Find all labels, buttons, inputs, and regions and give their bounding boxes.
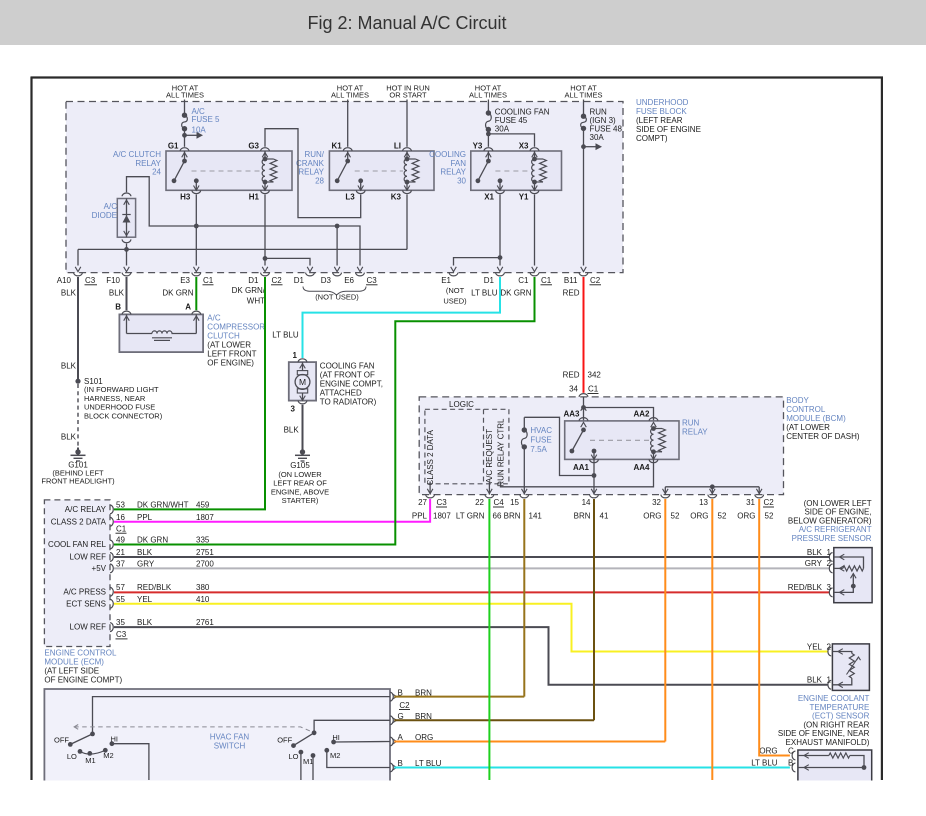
svg-text:OR START: OR START [389,91,427,100]
wire: D3 drop [336,226,338,266]
svg-text:(IN FORWARD LIGHT: (IN FORWARD LIGHT [84,385,159,394]
underhood fuse block (dashed box) [66,102,623,273]
wire: GRY 2700 +5V to pressure sensor 2 [114,567,830,569]
wire: ORG 52 row to fan switch A [394,741,665,743]
switch section 2 feed wire [314,720,390,733]
svg-text:410: 410 [196,595,210,604]
svg-text:(ON LOWER LEFT: (ON LOWER LEFT [804,499,872,508]
svg-text:COOLING FAN: COOLING FAN [320,362,375,371]
fuse RUN (IGN 3) FUSE 48 30A [581,114,586,119]
svg-text:E3: E3 [180,276,190,285]
svg-text:A/C: A/C [104,202,118,211]
svg-text:ENGINE, ABOVE: ENGINE, ABOVE [271,487,329,496]
svg-text:BLK: BLK [61,288,77,297]
wire: AA2 feed [584,408,654,421]
svg-text:C3: C3 [437,498,448,507]
svg-text:H3: H3 [180,193,191,202]
svg-text:7.5A: 7.5A [530,445,547,454]
svg-text:PPL: PPL [137,513,153,522]
ECM pin 16 PPL 1807 (CLASS 2 DATA) [110,517,113,526]
wire: X1 branch to E1 [454,258,501,266]
svg-text:LEFT FRONT: LEFT FRONT [207,350,256,359]
svg-text:16: 16 [116,513,125,522]
svg-text:BLK: BLK [61,432,77,441]
svg-text:GRY: GRY [137,559,155,568]
svg-text:RUN/: RUN/ [304,150,324,159]
svg-text:C3: C3 [85,276,96,285]
svg-text:32: 32 [652,498,661,507]
svg-text:35: 35 [116,618,125,627]
wire: X1 down to D1 (LT BLU) [499,195,501,266]
wire: ORG 52 pin 32 down [664,499,666,742]
svg-text:X3: X3 [519,142,529,151]
engine control module (ECM) dashed box [44,500,110,647]
svg-text:FAN: FAN [450,159,466,168]
svg-text:15: 15 [510,498,519,507]
svg-text:COMPRESSOR: COMPRESSOR [207,322,265,331]
svg-text:30: 30 [457,176,466,185]
svg-text:COOLING: COOLING [429,150,466,159]
hvac fan switch box [44,689,390,781]
svg-text:LOW REF: LOW REF [70,623,107,632]
svg-text:UNDERHOOD: UNDERHOOD [636,98,689,107]
wire: ORG output header [665,486,759,488]
svg-text:LT BLU: LT BLU [471,288,498,297]
svg-text:B11: B11 [564,276,578,285]
svg-text:SIDE OF ENGINE,: SIDE OF ENGINE, [804,508,871,517]
svg-text:PPL: PPL [412,511,428,520]
svg-text:B: B [115,303,121,312]
wire: diode top link to H3/D3/E6 [127,177,361,266]
svg-text:FRONT HEADLIGHT): FRONT HEADLIGHT) [41,476,115,485]
wire: ground bus A10 to K3 [78,248,407,250]
svg-text:31: 31 [746,498,755,507]
svg-text:ORG: ORG [759,746,777,755]
svg-text:OFF: OFF [54,736,69,745]
svg-text:STARTER): STARTER) [282,496,319,505]
relay: RUN/CRANK RELAY 28 [329,151,434,190]
svg-text:DK GRN: DK GRN [162,288,193,297]
wire: BRN 141 row to fan switch B [394,696,524,698]
switch 2 wiper [294,733,315,746]
svg-text:CLASS 2 DATA: CLASS 2 DATA [426,429,435,485]
cooling fan motor [289,362,316,401]
svg-text:PRESSURE SENSOR: PRESSURE SENSOR [792,534,872,543]
svg-text:37: 37 [116,559,125,568]
switch 2 LO wire down [300,752,302,780]
svg-text:FUSE BLOCK: FUSE BLOCK [636,107,687,116]
svg-text:LT BLU: LT BLU [751,758,778,767]
svg-text:BRN: BRN [504,511,521,520]
relay: RUN RELAY (in BCM) [565,421,679,460]
svg-text:DK GRN/WHT: DK GRN/WHT [137,500,189,509]
switch 1 contacts [78,749,83,754]
svg-text:K1: K1 [331,142,342,151]
wire: AA1 to pin 14 [593,459,595,494]
svg-text:BLK: BLK [284,425,300,434]
svg-text:BODY: BODY [786,396,809,405]
svg-text:57: 57 [116,583,125,592]
BCM: logic box [425,409,509,484]
relay: COOLING FAN RELAY 30 [471,151,562,190]
svg-text:30A: 30A [495,125,510,134]
svg-text:RED/BLK: RED/BLK [137,583,172,592]
svg-text:OFF: OFF [277,736,292,745]
svg-text:A/C CLUTCH: A/C CLUTCH [113,150,161,159]
svg-text:MODULE (BCM): MODULE (BCM) [786,414,846,423]
svg-text:BRN: BRN [574,511,591,520]
svg-text:SWITCH: SWITCH [214,741,246,750]
svg-text:G1: G1 [168,142,179,151]
svg-text:AA3: AA3 [563,410,580,419]
svg-text:1: 1 [827,548,832,557]
svg-text:G3: G3 [248,142,259,151]
wire: BLK 2761 low ref to ECT sensor 1 [114,627,828,685]
svg-text:BLK: BLK [109,288,125,297]
svg-text:Y3: Y3 [473,142,483,151]
svg-text:A: A [185,303,191,312]
svg-text:L3: L3 [345,193,355,202]
svg-text:459: 459 [196,500,210,509]
svg-text:USED): USED) [443,296,467,305]
svg-text:B: B [398,688,403,697]
svg-text:CENTER OF DASH): CENTER OF DASH) [786,432,860,441]
switch 2 contacts [299,750,304,755]
svg-text:A/C RELAY: A/C RELAY [65,505,107,514]
a/c refrigerant pressure sensor [834,548,872,603]
wire: D1/C2 DK GRN/WHT to ECM 53 [114,277,265,509]
svg-text:(AT LEFT SIDE: (AT LEFT SIDE [44,667,99,676]
svg-text:M2: M2 [330,751,340,760]
svg-text:AA1: AA1 [573,463,590,472]
svg-text:342: 342 [588,370,602,379]
svg-text:3: 3 [827,583,832,592]
svg-text:ALL TIMES: ALL TIMES [166,91,204,100]
svg-text:A/C REFRIGERANT: A/C REFRIGERANT [799,525,872,534]
svg-text:55: 55 [116,595,125,604]
svg-text:B: B [788,758,793,767]
svg-text:TEMPERATURE: TEMPERATURE [810,703,870,712]
svg-text:LT GRN: LT GRN [456,511,485,520]
svg-text:BLK: BLK [807,676,823,685]
svg-text:27: 27 [418,498,427,507]
svg-text:(AT FRONT OF: (AT FRONT OF [320,371,375,380]
wire: YEL 410 to ECT sensor 2 [114,604,828,652]
svg-text:DIODE: DIODE [92,211,117,220]
svg-text:1: 1 [827,676,832,685]
svg-text:C3: C3 [116,630,127,639]
svg-text:BELOW GENERATOR): BELOW GENERATOR) [788,516,872,525]
svg-text:D1: D1 [484,276,495,285]
switch 2 HI wire to pin A [334,741,390,744]
svg-text:ORG: ORG [415,733,433,742]
svg-text:F10: F10 [106,276,120,285]
switch 2 M2 wire to pin B [327,750,390,767]
svg-text:D3: D3 [321,276,332,285]
engine coolant temperature (ECT) sensor [832,644,869,691]
wire: LT BLU fan switch B to blower resistor B [394,767,790,769]
switch 1 wiper [70,734,92,745]
svg-text:CLASS 2 DATA: CLASS 2 DATA [51,517,107,526]
wire: H1 down to D1/C2 [264,195,266,266]
svg-text:C4: C4 [494,498,505,507]
svg-text:380: 380 [196,583,210,592]
brace: not used pins [303,287,366,296]
svg-text:ORG: ORG [690,511,708,520]
wire: feed to K1 [347,100,349,147]
svg-text:FUSE: FUSE [530,436,551,445]
switch section 1 feed wire [93,697,391,734]
svg-text:Fig 2: Manual A/C Circuit: Fig 2: Manual A/C Circuit [307,13,506,33]
svg-text:E6: E6 [344,276,354,285]
svg-text:1807: 1807 [433,511,451,520]
svg-text:Y1: Y1 [519,193,529,202]
wire: ORG 52 pin 13 down [711,499,713,780]
svg-text:C2: C2 [590,276,601,285]
svg-text:LO: LO [288,752,298,761]
wire: feed to LI [406,100,408,147]
svg-text:BRN: BRN [415,688,432,697]
svg-text:C1: C1 [518,276,529,285]
svg-text:G105: G105 [290,461,310,470]
svg-text:BLK: BLK [807,548,823,557]
svg-text:2700: 2700 [196,559,214,568]
svg-text:(ECT) SENSOR: (ECT) SENSOR [812,712,870,721]
wire: feed to cooling fan fuse 45 [487,100,489,114]
svg-text:(LEFT REAR: (LEFT REAR [636,116,683,125]
svg-text:ENGINE COOLANT: ENGINE COOLANT [798,694,870,703]
svg-text:UNDERHOOD FUSE: UNDERHOOD FUSE [84,403,155,412]
ECM pin 55 YEL 410 (ECT SENS) [110,599,113,608]
wire: diode bottom to F10 / ground bus [126,244,128,266]
svg-text:A: A [398,733,404,742]
wire: motor pin 3 BLK to G105 [302,405,304,450]
svg-text:2751: 2751 [196,548,214,557]
ECM pin 35 BLK 2761 (LOW REF) [110,623,113,632]
svg-text:EXHAUST MANIFOLD): EXHAUST MANIFOLD) [786,738,870,747]
wire: BLK 2751 low ref to pressure sensor 1 [114,556,830,558]
wire: BRN 41 row to fan switch G [394,719,594,721]
connector row: fuse block bottom [75,267,81,272]
svg-text:C2: C2 [764,498,775,507]
ground G101 [75,449,80,454]
svg-text:LEFT REAR OF: LEFT REAR OF [273,479,327,488]
svg-text:M1: M1 [303,757,313,766]
svg-text:C2: C2 [272,276,283,285]
svg-text:A10: A10 [57,276,72,285]
fan switch pins B,G,A,B [390,692,393,701]
svg-text:LI: LI [394,142,401,151]
svg-text:MODULE (ECM): MODULE (ECM) [44,658,104,667]
ECM pin 57 RED/BLK 380 (A/C PRESS) [110,587,113,596]
splice S101 [75,379,80,384]
wire: ORG 52 pin 31 to blower resistor C [759,499,790,756]
svg-text:2761: 2761 [196,618,214,627]
svg-text:FUSE 5: FUSE 5 [192,115,221,124]
svg-text:ENGINE COMPT,: ENGINE COMPT, [320,380,383,389]
svg-text:B: B [398,759,403,768]
wire: C1 DK GRN to ECM 49 [114,277,535,545]
wire: A10 BLK to S101 [77,277,79,380]
svg-text:X1: X1 [484,193,494,202]
svg-text:TO RADIATOR): TO RADIATOR) [320,398,377,407]
body control module (BCM) dashed box [419,397,783,495]
svg-text:CLUTCH: CLUTCH [207,332,240,341]
wire: Y1 down to C1 [534,195,536,266]
wire: feed to A/C fuse 5 [184,100,186,116]
svg-text:M1: M1 [85,756,95,765]
svg-text:2: 2 [827,559,832,568]
svg-text:A/C REQUEST: A/C REQUEST [485,429,494,483]
wire: B11 RED 342 to BCM 34 [583,277,585,393]
wire: S101 to G101 (dashed in harness) [77,384,79,448]
svg-text:141: 141 [529,511,543,520]
svg-text:WHT: WHT [247,296,265,305]
svg-text:C1: C1 [588,385,599,394]
svg-text:66: 66 [493,511,502,520]
svg-text:ORG: ORG [737,511,755,520]
switch 1 HI wire down [112,744,149,780]
wire: F10 BLK to clutch pin B [126,277,128,310]
svg-text:BRN: BRN [415,712,432,721]
wire: RUN RELAY CTRL to AA4 [501,459,654,486]
fuse COOLING FAN FUSE 45 30A [486,110,491,115]
svg-text:CONTROL: CONTROL [786,405,826,414]
blower motor resistor [798,750,872,781]
wire: class 2 data to pin 27 [429,482,431,495]
svg-text:RUN RELAY CTRL: RUN RELAY CTRL [496,418,505,487]
ground G105 [300,449,305,454]
svg-text:C1: C1 [541,276,552,285]
title bar [0,0,926,45]
svg-text:BLK: BLK [137,548,153,557]
wire: RED/BLK 380 to pressure sensor 3 [114,591,830,593]
svg-text:335: 335 [196,536,210,545]
svg-text:(NOT USED): (NOT USED) [315,293,359,302]
relay: A/C CLUTCH RELAY 24 [166,151,292,190]
svg-text:53: 53 [116,500,125,509]
svg-text:14: 14 [582,498,591,507]
wire: K3 drop [406,195,408,250]
svg-text:G: G [398,712,404,721]
svg-text:3: 3 [291,405,296,414]
svg-text:RED/BLK: RED/BLK [788,583,823,592]
svg-text:(AT LOWER: (AT LOWER [786,423,830,432]
ECM pin 49 DK GRN 335 (COOL FAN REL) [110,540,113,549]
svg-text:52: 52 [718,511,727,520]
fuse HVAC FUSE 7.5A [524,417,594,475]
svg-text:YEL: YEL [807,642,823,651]
svg-text:DK GRN: DK GRN [500,288,531,297]
svg-text:ORG: ORG [643,511,661,520]
svg-text:OF ENGINE): OF ENGINE) [207,359,254,368]
svg-text:13: 13 [699,498,708,507]
wire: RED into BCM to AA3/AA2 [579,394,588,397]
wire: BRN 41 pin 14 down [593,499,595,720]
svg-text:+5V: +5V [92,564,107,573]
svg-text:28: 28 [315,176,324,185]
svg-text:BLOCK CONNECTOR): BLOCK CONNECTOR) [84,412,163,421]
svg-text:24: 24 [152,168,161,177]
wire: H3 down to E3 [195,195,197,266]
svg-text:COOL FAN REL: COOL FAN REL [48,540,106,549]
svg-text:RELAY: RELAY [298,168,324,177]
svg-text:52: 52 [765,511,774,520]
svg-text:ALL TIMES: ALL TIMES [331,91,369,100]
svg-text:(ON RIGHT REAR: (ON RIGHT REAR [803,720,869,729]
svg-text:LOGIC: LOGIC [449,400,474,409]
svg-text:41: 41 [600,511,609,520]
svg-text:RED: RED [563,288,580,297]
svg-text:DK GRN: DK GRN [137,536,168,545]
svg-text:AA4: AA4 [633,463,650,472]
svg-text:1807: 1807 [196,513,214,522]
svg-text:HVAC FAN: HVAC FAN [210,732,250,741]
svg-text:C1: C1 [116,525,127,534]
svg-text:ECT SENS: ECT SENS [66,599,106,608]
svg-text:C1: C1 [203,276,214,285]
wire: LT GRN 66 pin 22 down [488,499,490,780]
svg-text:1: 1 [293,351,298,360]
svg-text:SIDE OF ENGINE, NEAR: SIDE OF ENGINE, NEAR [778,729,870,738]
wire: H1 branch to D1 (2nd) [265,258,310,265]
svg-text:HI: HI [332,733,340,742]
ECM pin 21 BLK 2751 (LOW REF) [110,553,113,562]
svg-text:A/C PRESS: A/C PRESS [63,587,106,596]
svg-text:HARNESS, NEAR: HARNESS, NEAR [84,394,146,403]
svg-text:DK GRN/: DK GRN/ [232,286,266,295]
svg-text:ENGINE CONTROL: ENGINE CONTROL [44,649,117,658]
svg-text:K3: K3 [391,193,402,202]
svg-text:LO: LO [67,752,77,761]
wire: feed to run fuse 48 [583,100,585,117]
svg-text:HI: HI [111,734,119,743]
svg-text:21: 21 [116,548,125,557]
svg-text:C2: C2 [399,701,410,710]
svg-text:ALL TIMES: ALL TIMES [469,91,507,100]
svg-text:LOW REF: LOW REF [70,553,107,562]
wire: G3 to L3 link [265,129,361,218]
svg-text:SIDE OF ENGINE: SIDE OF ENGINE [636,125,701,134]
svg-text:H1: H1 [249,193,260,202]
svg-text:RELAY: RELAY [682,428,708,437]
svg-text:C3: C3 [367,276,378,285]
svg-text:M: M [299,377,306,387]
wire: fuse 45 branch to X3 [486,132,491,137]
svg-text:ALL TIMES: ALL TIMES [565,91,603,100]
bottom clip [0,781,926,816]
svg-text:RED: RED [563,370,580,379]
svg-text:BLK: BLK [137,618,153,627]
svg-text:GRY: GRY [805,559,823,568]
svg-text:D1: D1 [294,276,305,285]
svg-text:RUN: RUN [682,419,700,428]
svg-text:2: 2 [827,642,832,651]
svg-text:22: 22 [475,498,484,507]
ECM pin 53 DK GRN/WHT 459 (A/C RELAY) [110,505,113,514]
svg-text:34: 34 [569,385,578,394]
clutch coil [152,331,157,334]
svg-text:52: 52 [671,511,680,520]
svg-text:RELAY: RELAY [440,168,466,177]
svg-text:BLK: BLK [61,362,77,371]
ECM pin 37 GRY 2700 (+5V) [110,564,113,573]
svg-text:OF ENGINE COMPT): OF ENGINE COMPT) [44,676,122,685]
svg-text:30A: 30A [590,133,605,142]
svg-text:HVAC: HVAC [530,426,552,435]
svg-text:M2: M2 [103,751,113,760]
svg-text:E1: E1 [441,276,451,285]
